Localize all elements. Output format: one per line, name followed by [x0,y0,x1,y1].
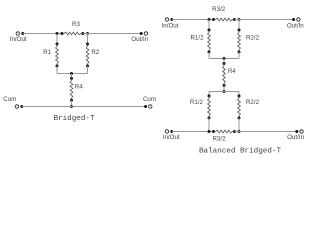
svg-text:R1: R1 [43,49,51,56]
wire R4 bottom lead (Balanced) [223,86,225,92]
wire R2/2 upper bottom lead [238,52,240,59]
svg-text:Balanced Bridged-T: Balanced Bridged-T [199,148,281,156]
wire Com rail [22,106,146,108]
svg-text:Out/In: Out/In [287,134,304,141]
svg-text:R1/2: R1/2 [190,99,204,106]
wire R2 bottom lead [87,66,89,74]
terminal Com (right) [144,105,147,108]
node junction lower connector center [223,90,226,93]
wire R2/2 upper top lead [238,20,240,31]
wire R1/2 lower top lead [208,92,210,97]
svg-text:R1/2: R1/2 [190,35,204,42]
svg-text:R4: R4 [228,68,236,75]
svg-text:Out/In: Out/In [131,36,148,43]
resistor R2/2 (lower) [238,95,241,98]
svg-text:R3: R3 [72,21,80,28]
terminal In/Out (left, Bridged-T) [16,32,19,35]
node junction R4 top [70,72,73,75]
wire R4 bottom lead [71,100,73,106]
svg-text:R3/2: R3/2 [212,135,226,142]
resistor R3/2 (bottom) [212,130,215,133]
node junction R2/2 bottom [238,130,241,133]
wire R4 top lead (Balanced) [223,59,225,64]
resistor R1/2 (upper) [208,29,211,32]
wire top rail left segment [23,33,62,35]
node junction R2/2 top [238,18,241,21]
wire balanced bottom rail left [172,131,214,133]
wire R2/2 lower bottom lead [238,118,240,132]
wire upper connector [209,58,239,60]
terminal Out/In (top-right, Balanced) [292,18,295,21]
svg-text:R2/2: R2/2 [246,35,260,42]
node junction R1/2 top [208,18,211,21]
svg-text:Com: Com [143,96,156,103]
node junction R2 top [86,32,89,35]
wire R1/2 upper top lead [208,20,210,31]
node junction on Com rail [70,105,73,108]
wire top rail right segment [83,33,141,35]
svg-text:R2/2: R2/2 [246,99,260,106]
resistor R1/2 (lower) [208,95,211,98]
resistor R2 [86,43,89,46]
wire balanced top rail right [235,19,294,21]
svg-text:R4: R4 [75,83,83,90]
terminal In/Out (top-left, Balanced) [165,18,168,21]
resistor R4 (Balanced) [223,62,226,65]
resistor R2/2 (upper) [238,29,241,32]
wire R1/2 upper bottom lead [208,52,210,59]
resistor R3/2 (top) [212,18,215,21]
svg-text:Bridged-T: Bridged-T [53,115,94,123]
svg-text:Com: Com [3,96,16,103]
svg-text:In/Out: In/Out [162,22,179,29]
terminal Out/In (right, Bridged-T) [140,32,143,35]
node junction R4 top (Balanced) [223,57,226,60]
terminal In/Out (bottom-left, Balanced) [165,130,168,133]
wire balanced bottom rail right [235,131,297,133]
wire lower connector [209,91,239,93]
wire R1 top lead [56,34,58,45]
wire R4 top lead [71,74,73,79]
node junction R1/2 bottom [208,130,211,133]
svg-text:In/Out: In/Out [163,134,180,141]
svg-text:R3/2: R3/2 [212,6,226,13]
wire bottom connector [57,73,88,75]
resistor R1 [56,43,59,46]
svg-text:Out/In: Out/In [287,22,304,29]
wire R1 bottom lead [56,66,58,74]
terminal Com (left) [15,105,18,108]
terminal Out/In (bottom-right, Balanced) [295,130,298,133]
svg-text:In/Out: In/Out [10,36,27,43]
resistor R4 [70,77,73,80]
svg-text:R2: R2 [91,49,99,56]
node junction R1 top [56,32,59,35]
wire R2 top lead [87,34,89,45]
wire R2/2 lower top lead [238,92,240,97]
wire R1/2 lower bottom lead [208,118,210,132]
resistor R3 [61,32,64,35]
wire balanced top rail left [172,19,214,21]
